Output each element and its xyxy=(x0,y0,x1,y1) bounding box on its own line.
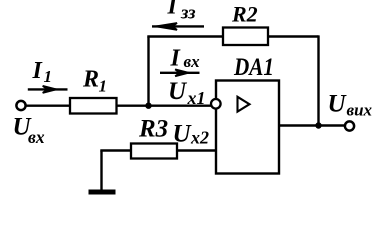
svg-text:DA1: DA1 xyxy=(233,54,274,81)
svg-text:1: 1 xyxy=(99,77,108,96)
svg-text:R2: R2 xyxy=(231,2,258,27)
svg-text:x2: x2 xyxy=(190,128,209,148)
svg-text:R3: R3 xyxy=(138,116,168,143)
svg-text:вх: вх xyxy=(184,52,201,71)
svg-text:U: U xyxy=(168,78,188,105)
svg-text:вх: вх xyxy=(28,127,45,147)
svg-text:R: R xyxy=(82,67,99,93)
svg-text:I: I xyxy=(167,0,179,20)
svg-text:I: I xyxy=(32,58,44,84)
svg-text:зз: зз xyxy=(180,3,196,24)
svg-text:U: U xyxy=(328,91,348,118)
svg-text:вих: вих xyxy=(347,101,373,120)
svg-text:1: 1 xyxy=(44,67,53,86)
svg-text:I: I xyxy=(170,46,182,72)
svg-text:U: U xyxy=(173,121,193,148)
svg-text:x1: x1 xyxy=(187,88,206,108)
